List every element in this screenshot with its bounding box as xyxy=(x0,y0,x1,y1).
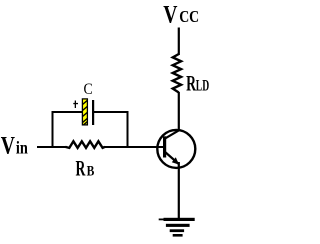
svg-text:in: in xyxy=(16,138,28,158)
transistor Q1 collector stroke xyxy=(165,130,180,139)
label RB xyxy=(76,156,95,181)
svg-text:CC: CC xyxy=(179,7,199,26)
wire base xyxy=(105,146,165,148)
ground xyxy=(159,218,195,237)
transistor Q1 emitter arrowhead xyxy=(172,157,179,164)
label RLD xyxy=(186,71,209,96)
wire loop right xyxy=(127,111,129,148)
Vin label xyxy=(1,132,28,160)
resistor RLD xyxy=(173,54,181,93)
wire loop top right xyxy=(94,111,129,113)
transistor Q1 circle xyxy=(157,130,195,168)
svg-text:LD: LD xyxy=(196,78,209,95)
Vcc label xyxy=(163,0,199,28)
capacitor C left plate xyxy=(82,99,87,125)
wire collector lower xyxy=(178,92,180,131)
svg-text:V: V xyxy=(163,0,177,28)
svg-text:B: B xyxy=(87,163,95,180)
wire emitter xyxy=(178,162,180,219)
resistor RB xyxy=(65,141,104,148)
wire input xyxy=(37,146,66,148)
capacitor C right plate xyxy=(92,100,94,125)
svg-text:R: R xyxy=(76,156,86,181)
transistor Q1 emitter stroke xyxy=(165,152,179,165)
svg-text:V: V xyxy=(1,132,15,160)
wire collector upper xyxy=(178,28,180,56)
wire loop left xyxy=(52,111,54,148)
label C xyxy=(84,81,93,98)
svg-text:C: C xyxy=(84,81,93,98)
capacitor C plus mark xyxy=(73,101,78,109)
wire loop top left xyxy=(52,111,83,113)
transistor Q1 base bar xyxy=(163,136,166,157)
